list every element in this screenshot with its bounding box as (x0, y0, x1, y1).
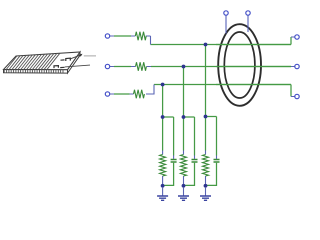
capacitor C2 plates (192, 160, 198, 163)
wire R5 top (183, 117, 185, 151)
resistor R3 (zigzag) (134, 90, 145, 98)
wire row2 green (114, 66, 291, 68)
tap lead (right, on core top) (247, 15, 249, 32)
SAW device (piezoelectric slab, isometric view) (4, 52, 81, 73)
slab top face (4, 52, 81, 70)
junction RC3 bottom (204, 184, 208, 188)
terminal P1 (left, row1) (105, 34, 109, 38)
resistor R5 (vertical zigzag) (181, 155, 187, 177)
tap terminal (left) (224, 11, 228, 15)
RC network 3 (200, 115, 220, 201)
ground stub 3 (205, 188, 207, 196)
wire RC3 top (206, 117, 217, 156)
vertical feed wire B (from row2 to RC2) (183, 67, 185, 118)
slab front edge tick marks (4, 70, 63, 74)
junction row2/feedB (182, 65, 186, 69)
junction RC1 top (161, 115, 165, 119)
wire C2 bottom (184, 163, 195, 186)
transformer core (outer ring) (218, 24, 261, 106)
vertical feed wire A (from row3 to RC1) (162, 85, 164, 118)
wires redrawn over core (216, 45, 291, 85)
tap terminal (right) (246, 11, 250, 15)
vertical feed wire C (from row1 to RC3) (205, 45, 207, 117)
capacitor C2 top pin (194, 156, 196, 159)
device lead (bottom) (65, 65, 90, 67)
wire row3 green (114, 85, 291, 97)
junction row3/feedA (161, 83, 165, 87)
arrowhead (79, 54, 83, 57)
wire C1 bottom (163, 163, 174, 186)
wire R4 top (162, 117, 164, 151)
resistor R6 (vertical zigzag) (203, 155, 209, 177)
ground stub 2 (183, 188, 185, 196)
RC network 2 (178, 115, 198, 200)
terminal (right, row2) (295, 64, 299, 68)
resistor R2 (zigzag) (136, 62, 147, 70)
wire row1 blue pin stubs (110, 36, 295, 45)
device lead (top, with arrow) (71, 55, 81, 59)
wire row3 blue pin stubs (110, 85, 295, 97)
device lead stub (gray, to the right) (84, 55, 96, 57)
ground 2 (178, 196, 189, 200)
terminal (right, row3) (295, 94, 299, 98)
capacitor C3 top pin (216, 156, 218, 159)
IDT electrode group (lower) (54, 66, 65, 69)
junction RC3 top (204, 115, 208, 119)
wire R6 top (205, 117, 207, 151)
wire RC1 top (163, 117, 174, 156)
resistor R4 (vertical zigzag) (160, 155, 166, 177)
resistor R1 (zigzag) (135, 32, 146, 40)
ground 3 (200, 196, 211, 200)
resistor R5 pins (183, 151, 185, 186)
junction RC2 bottom (182, 184, 186, 188)
slab right end face (68, 52, 81, 73)
resistor R4 pins (162, 151, 164, 186)
ground stub 1 (162, 188, 164, 196)
capacitor C3 plates (214, 160, 220, 163)
terminal (right, row1) (295, 35, 299, 39)
tap lead (left, on core top) (225, 15, 227, 34)
IDT electrode group (upper) (61, 58, 71, 61)
wire RC2 top (184, 117, 195, 156)
junction RC1 bottom (161, 184, 165, 188)
transformer core (inner ring) (224, 32, 255, 98)
slab front face (4, 70, 68, 74)
wire row2 blue pin stubs (110, 66, 295, 68)
RC network 1 (157, 115, 177, 200)
capacitor C1 plates (171, 160, 177, 163)
resistor R6 pins (205, 151, 207, 186)
terminal P3 (left, row3) (105, 92, 109, 96)
junction row1/feedC (204, 43, 208, 47)
terminal P2 (left, row2) (105, 64, 109, 68)
ground 1 (157, 196, 168, 200)
wire C3 bottom (206, 163, 217, 186)
wire row1 green (114, 36, 291, 45)
junction RC2 top (182, 115, 186, 119)
capacitor C1 top pin (173, 156, 175, 159)
slab hatching (crystal grating) (6, 53, 60, 69)
